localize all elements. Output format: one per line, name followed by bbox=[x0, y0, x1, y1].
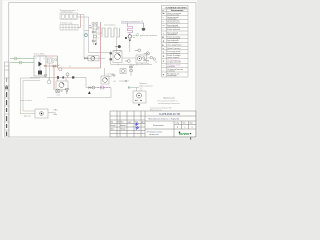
svg-text:П-АРБ.0523.00-ТМ: П-АРБ.0523.00-ТМ bbox=[159, 113, 180, 116]
red supply loop bbox=[38, 22, 101, 68]
pipe down left bbox=[116, 37, 118, 52]
pump frame P2 bbox=[113, 51, 122, 63]
green marks right of valve bbox=[133, 36, 138, 38]
magenta recirculation pipe bbox=[97, 87, 110, 89]
burner triangle bbox=[38, 62, 42, 67]
return riser x111 bbox=[110, 88, 112, 98]
stem from vessel to trap bbox=[49, 63, 51, 80]
svg-text:отопления: отопления bbox=[167, 66, 175, 68]
signature scrawl 1 bbox=[135, 123, 139, 126]
svg-text:электроприводом: электроприводом bbox=[167, 38, 180, 40]
drain loop inner bbox=[23, 81, 40, 112]
green sensor line lower bbox=[10, 62, 34, 64]
bowtie valve 2 on riser bbox=[92, 40, 95, 42]
dirt trap bbox=[47, 80, 51, 84]
magenta box bbox=[101, 86, 104, 89]
pipe under label bbox=[121, 23, 144, 28]
junction square bbox=[72, 76, 74, 78]
green tee marks bbox=[85, 31, 89, 33]
manifold pipe y64.5 bbox=[111, 64, 152, 66]
svg-text:3: 3 bbox=[192, 127, 193, 129]
svg-text:Московская область, г. Королев: Московская область, г. Королев bbox=[149, 118, 180, 120]
drain pump bbox=[40, 112, 44, 116]
terminal strip X1 bbox=[60, 25, 78, 31]
svg-text:Пров.: Пров. bbox=[110, 129, 115, 131]
svg-text:Клеммн. ряд: Клеммн. ряд bbox=[60, 22, 73, 24]
pump frame P3 bbox=[136, 55, 147, 63]
svg-text:1: 1 bbox=[185, 127, 186, 129]
svg-text:Иванов: Иванов bbox=[120, 125, 125, 127]
pump P3 bbox=[137, 56, 141, 60]
valve bowtie on y66 bbox=[53, 65, 56, 67]
svg-text:температуры: температуры bbox=[167, 18, 176, 20]
svg-text:слив в канал.: слив в канал. bbox=[20, 100, 33, 102]
arrow down bbox=[129, 40, 131, 42]
pipe y52.5 mid bbox=[89, 52, 111, 54]
svg-text:П: П bbox=[177, 127, 178, 129]
svg-text:В1: В1 bbox=[114, 81, 116, 83]
drawing frame bbox=[9, 3, 196, 138]
heat exchanger inlet stub bbox=[97, 29, 103, 33]
bowtie valve on riser bbox=[92, 31, 95, 33]
pump P2 bbox=[115, 54, 121, 60]
svg-text:водопровода: водопровода bbox=[167, 75, 176, 77]
green tick on В1 bbox=[125, 80, 127, 82]
red riser x54 bbox=[53, 66, 55, 90]
flange marks left of P2 bbox=[110, 52, 112, 54]
pipe into P3 bbox=[122, 57, 150, 59]
svg-text:регулированием: регулированием bbox=[167, 15, 179, 17]
pump frame P1 bbox=[56, 81, 68, 90]
instrument with stem bbox=[66, 73, 69, 76]
stamp frame bbox=[110, 111, 196, 137]
pump P4 bbox=[91, 56, 95, 60]
pump P1 bbox=[59, 83, 64, 88]
valve pair in frame bbox=[135, 100, 137, 102]
dark valve 2 on y77.5 bbox=[62, 76, 64, 78]
drain loop outer bbox=[21, 78, 41, 114]
svg-text:Петров: Петров bbox=[120, 129, 125, 131]
makeup pump frame P6 bbox=[133, 91, 146, 103]
В1 pipe bbox=[119, 80, 129, 82]
blue dash in cluster bbox=[89, 24, 91, 26]
svg-text:сервоприводом: сервоприводом bbox=[167, 42, 178, 44]
funnel symbol bbox=[65, 89, 68, 92]
boiler bottom element bbox=[38, 71, 42, 75]
wire gray vertical x88 bbox=[88, 17, 90, 53]
makeup pump P6 bbox=[137, 93, 142, 98]
expansion vessel small box bbox=[48, 58, 54, 63]
boiler center pipe bbox=[39, 56, 41, 70]
wire blue vertical x84 bbox=[83, 15, 85, 59]
dashes below valves bbox=[57, 94, 61, 96]
green-blue instrument bbox=[85, 34, 88, 37]
pink stubs into pump frame bbox=[58, 78, 67, 82]
bowtie on y87.5 bbox=[89, 87, 92, 89]
svg-text:котельной: котельной bbox=[149, 133, 158, 136]
pipe x110.7 vertical bbox=[110, 51, 112, 65]
junction dot below bbox=[138, 104, 140, 106]
page number tick below frame bbox=[190, 137, 191, 139]
green diamond mark bbox=[136, 33, 139, 36]
twin gauges bbox=[150, 56, 152, 58]
svg-text:Теплообменн.: Теплообменн. bbox=[104, 24, 117, 26]
wire controller to node x84 bbox=[78, 16, 89, 18]
legend frame bbox=[162, 5, 189, 77]
svg-text:Дренаж: Дренаж bbox=[24, 116, 31, 118]
closed valve crossed circle bbox=[56, 89, 60, 93]
drain pump box bbox=[35, 109, 48, 118]
svg-text:отопления: отопления bbox=[167, 71, 175, 73]
ГВС branch down bbox=[130, 65, 132, 77]
ticks on manifold bbox=[118, 64, 137, 66]
bowtie valve on y57.5 bbox=[85, 57, 88, 59]
svg-text:водоснабжение: водоснабжение bbox=[139, 85, 153, 87]
stage/sheet header bbox=[176, 123, 194, 129]
boiler K1 bbox=[34, 56, 46, 76]
gauge on branch bbox=[130, 69, 133, 72]
small box branch bbox=[120, 69, 126, 74]
gauge on riser bbox=[93, 35, 96, 38]
dark valve on y77.5 bbox=[57, 76, 59, 79]
svg-text:смесит. подключ.: смесит. подключ. bbox=[167, 57, 180, 59]
pipe y66 red bbox=[44, 65, 58, 67]
dashes below manifold bbox=[134, 63, 150, 66]
arrow down bbox=[95, 43, 97, 45]
bowtie on branch bbox=[130, 66, 133, 68]
svg-text:Разраб: Разраб bbox=[110, 125, 115, 127]
heat exchanger serpentine W1 bbox=[102, 28, 120, 37]
pipe y77.5 bbox=[30, 78, 86, 88]
green sensor line upper bbox=[10, 58, 34, 60]
left attachment column bbox=[5, 62, 10, 137]
svg-text:Насос циркуляцион.: Насос циркуляцион. bbox=[167, 45, 182, 47]
svg-text:контура отопления: контура отопления bbox=[167, 62, 181, 64]
gas meter circle 1 bbox=[14, 57, 17, 60]
gray riser pair in boiler cluster bbox=[94, 22, 97, 45]
svg-text:автоматизация котельной: автоматизация котельной bbox=[158, 102, 180, 105]
pipes into frame bbox=[137, 88, 142, 92]
stamp header texts bbox=[110, 121, 144, 131]
svg-text:Наименование: Наименование bbox=[171, 10, 183, 12]
small instrument right of vessel bbox=[55, 58, 57, 60]
control valve below coil bbox=[129, 33, 131, 35]
dark actuator bbox=[125, 37, 127, 39]
right side tick marks bbox=[98, 28, 100, 39]
gauge on y87.5 bbox=[92, 86, 95, 89]
left column vertical text marks bbox=[5, 78, 8, 136]
small mark beside bbox=[61, 90, 63, 92]
expansion tank oval bbox=[114, 50, 121, 52]
end valve oval bbox=[142, 28, 146, 31]
wire red from terminal strip bbox=[78, 15, 81, 28]
gas meter circle 2 bbox=[19, 61, 22, 64]
svg-text:Дата: Дата bbox=[141, 122, 145, 124]
pipe down right bbox=[129, 38, 131, 52]
svg-text:Лист: Лист bbox=[183, 123, 187, 125]
svg-text:ХВС: ХВС bbox=[54, 110, 59, 112]
svg-text:автоматика А1: автоматика А1 bbox=[61, 11, 73, 14]
pump P5 bbox=[103, 78, 108, 83]
svg-text:автоматики котла: автоматики котла bbox=[167, 22, 180, 24]
instrument TI on left pipe bbox=[118, 45, 121, 48]
red dash in cluster bbox=[89, 27, 91, 29]
svg-text:Примечание:: Примечание: bbox=[163, 98, 176, 100]
return pipe y97.5 bbox=[47, 97, 111, 99]
pipe y57.5 mid bbox=[84, 57, 105, 59]
drain pipes bbox=[48, 112, 53, 114]
svg-text:Котел КВ-1: Котел КВ-1 bbox=[34, 54, 45, 56]
instrument below-right of P2 bbox=[127, 60, 130, 63]
svg-text:УСЛОВНЫЕ ОБОЗНАЧ.: УСЛОВНЫЕ ОБОЗНАЧ. bbox=[166, 6, 188, 9]
radiator coil magenta bbox=[128, 23, 133, 33]
red stub bbox=[44, 65, 47, 66]
controller U1 block bbox=[60, 13, 78, 19]
pipe y87.5 bbox=[86, 87, 111, 89]
signature scrawl 2 bbox=[136, 127, 140, 130]
dots in P3 frame bbox=[143, 57, 145, 59]
svg-text:Т1: Т1 bbox=[155, 62, 157, 64]
svg-text:Изм: Изм bbox=[110, 122, 113, 124]
marks bottom left of manifold bbox=[111, 74, 116, 76]
pump frame P5 bbox=[101, 76, 109, 84]
gauge right bbox=[146, 52, 149, 55]
svg-text:Стад: Стад bbox=[176, 123, 180, 125]
arrow up drain bbox=[88, 91, 91, 94]
svg-text:электроприводом: электроприводом bbox=[167, 53, 180, 55]
makeup pipe bbox=[128, 87, 139, 89]
svg-text:Лист: Лист bbox=[120, 122, 124, 124]
gauge pair top bbox=[92, 22, 95, 25]
green tick on makeup bbox=[128, 86, 130, 89]
svg-text:Тепловая схема: Тепловая схема bbox=[147, 131, 163, 133]
instrument TI on right pipe bbox=[138, 49, 141, 52]
green mark bbox=[54, 114, 58, 116]
svg-text:Система отопления Т3: Система отопления Т3 bbox=[121, 21, 144, 23]
green cross node bbox=[58, 65, 60, 67]
svg-text:Котельная: Котельная bbox=[153, 125, 164, 127]
gauge PI1 bbox=[59, 68, 62, 71]
pump frame P4 bbox=[88, 56, 99, 61]
company logo green bbox=[179, 132, 192, 136]
svg-text:Лист: Лист bbox=[190, 123, 194, 125]
paper sheet bbox=[2, 0, 198, 139]
instrument left on y77.5 bbox=[44, 74, 47, 77]
wire controller to node x88 bbox=[78, 14, 85, 16]
boiler inner marks bbox=[35, 58, 45, 60]
bracket pipe bbox=[143, 60, 149, 61]
svg-text:давление теплонос.: давление теплонос. bbox=[140, 35, 158, 37]
legend rows bbox=[162, 12, 183, 77]
small box on riser bbox=[92, 26, 98, 29]
page background bbox=[0, 0, 200, 141]
pipe x104.5 into P5 bbox=[104, 68, 106, 76]
